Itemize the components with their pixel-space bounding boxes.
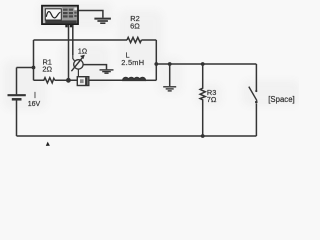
svg-text:16V: 16V	[28, 101, 41, 108]
ground mid stub	[169, 64, 171, 86]
wire top rail right	[141, 39, 156, 41]
switch bottom lead	[255, 104, 257, 137]
node R3 branch dot	[201, 62, 205, 66]
svg-text:7Ω: 7Ω	[207, 95, 217, 104]
resistor R1	[34, 78, 55, 83]
svg-text:6Ω: 6Ω	[130, 22, 140, 31]
resistor R2	[127, 37, 141, 42]
battery E top lead	[16, 68, 18, 95]
potentiometer wiper wire	[84, 65, 107, 70]
oscilloscope wire to ground	[78, 11, 103, 18]
wire box to inductor	[89, 79, 123, 81]
ammeter box	[77, 77, 89, 86]
wire right vertical of R2-L loop	[155, 40, 157, 80]
node bottom rail R3 dot	[201, 134, 205, 138]
inductor L	[123, 78, 145, 81]
potentiometer top lead	[73, 55, 75, 61]
node mid rail left dot	[154, 62, 158, 66]
wire left vertical	[33, 40, 35, 80]
ground mid bars	[163, 86, 176, 88]
resistor R3 vertical	[200, 64, 205, 136]
ground top bars	[94, 18, 111, 20]
switch contact bottom	[255, 101, 258, 104]
potentiometer bottom lead	[77, 69, 79, 77]
switch contact top	[255, 90, 257, 92]
wire mid rail	[156, 63, 256, 65]
node battery tee dot	[32, 66, 36, 70]
battery E long plate	[8, 94, 26, 96]
cursor mark	[46, 142, 50, 146]
svg-text:I: I	[34, 91, 36, 100]
svg-text:1Ω: 1Ω	[78, 49, 87, 56]
wire battery tee	[17, 67, 34, 69]
wire R1 to box	[55, 79, 78, 81]
wire top rail	[34, 39, 128, 41]
switch J1 top lead	[255, 64, 257, 90]
oscilloscope probe wire A	[68, 24, 70, 80]
potentiometer body circle	[74, 60, 83, 69]
svg-text:2Ω: 2Ω	[42, 65, 52, 74]
oscilloscope XSC1	[42, 6, 78, 28]
node scope probe dot	[66, 78, 71, 83]
node ground branch dot	[168, 62, 172, 66]
battery E bottom lead	[16, 101, 18, 137]
wire inductor to right vertical	[145, 79, 156, 81]
battery E short plate	[12, 98, 22, 101]
svg-text:[Space]: [Space]	[268, 95, 294, 104]
switch blade	[249, 87, 257, 101]
svg-text:2.5mH: 2.5mH	[121, 58, 144, 67]
label R2	[28, 14, 295, 108]
scope terminal stubs	[65, 24, 67, 27]
ground pot bars	[100, 69, 114, 71]
potentiometer arrow	[71, 57, 82, 71]
oscilloscope probe wire B / pot top	[72, 24, 74, 55]
wire bottom rail	[17, 135, 257, 137]
haze	[3, 2, 300, 110]
